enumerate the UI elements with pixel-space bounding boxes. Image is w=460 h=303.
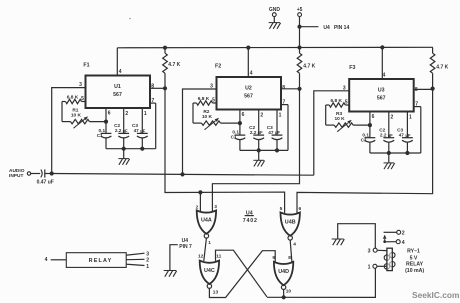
node output junction #1 bbox=[163, 86, 167, 90]
wire U4D output down bbox=[283, 290, 285, 298]
NOR gate U4C bbox=[200, 261, 219, 284]
svg-text:4: 4 bbox=[293, 242, 296, 248]
svg-text:µF: µF bbox=[123, 129, 128, 134]
wire 6.8K to pot bbox=[61, 102, 63, 122]
svg-text:3: 3 bbox=[79, 82, 82, 88]
wire pin2 to C2 bbox=[258, 110, 260, 136]
ground rail (U3) bbox=[370, 152, 421, 154]
IC U1 567 tone decoder bbox=[86, 76, 151, 109]
node pin6 junction bbox=[238, 121, 242, 125]
wire U2 pin4 to bus bbox=[247, 48, 249, 77]
wire pin6 to C1 bbox=[105, 108, 107, 133]
wire U1 output to gates bbox=[165, 88, 285, 213]
svg-text:4: 4 bbox=[250, 71, 253, 77]
svg-text:3: 3 bbox=[368, 248, 371, 254]
svg-text:F2: F2 bbox=[215, 64, 221, 70]
wire U3 pin8 stub bbox=[414, 88, 433, 90]
svg-text:RY–1: RY–1 bbox=[407, 248, 420, 254]
capacitor C1 0.1 (U2) bbox=[235, 134, 246, 136]
svg-text:4.7 K: 4.7 K bbox=[168, 62, 180, 68]
svg-text:5: 5 bbox=[280, 206, 283, 212]
NOR gate U4D bbox=[274, 262, 293, 285]
svg-text:2: 2 bbox=[391, 114, 394, 120]
ground (U3) bbox=[388, 153, 390, 163]
svg-text:1: 1 bbox=[279, 113, 282, 119]
resistor 6.8K (U1 pin5) bbox=[62, 101, 66, 103]
stray mark bbox=[129, 18, 131, 20]
wire U2 pin8 stub bbox=[281, 88, 300, 90]
wire U4A output to U4C pin12 bbox=[204, 238, 207, 261]
svg-text:12: 12 bbox=[198, 254, 204, 260]
svg-text:2: 2 bbox=[196, 204, 199, 210]
svg-text:INPUT: INPUT bbox=[9, 173, 23, 179]
terminal 4 contact bbox=[396, 240, 400, 244]
svg-text:R1: R1 bbox=[72, 107, 78, 113]
svg-text:47: 47 bbox=[134, 128, 140, 133]
ground rail (U1) bbox=[106, 148, 156, 150]
svg-text:1: 1 bbox=[146, 264, 149, 270]
svg-text:U3: U3 bbox=[378, 88, 385, 94]
svg-text:567: 567 bbox=[377, 96, 386, 102]
svg-text:4.7 K: 4.7 K bbox=[436, 65, 448, 71]
wire U4C output to U4D pin9 (cross-couple) bbox=[209, 251, 275, 298]
resistor 6.8K (U3 pin5) bbox=[326, 104, 330, 106]
svg-text:C1: C1 bbox=[231, 135, 237, 140]
svg-text:47: 47 bbox=[399, 132, 405, 137]
node pin6 junction bbox=[104, 120, 108, 124]
svg-text:GND: GND bbox=[269, 7, 281, 13]
svg-text:47: 47 bbox=[268, 130, 274, 135]
svg-text:RELAY: RELAY bbox=[406, 262, 424, 268]
potentiometer R1 10K bbox=[62, 121, 71, 123]
capacitor 0.47uF coupling bbox=[31, 173, 41, 175]
svg-text:µF: µF bbox=[140, 129, 145, 134]
capacitor C3 47uF (U3) bbox=[402, 137, 413, 139]
svg-text:SeekIC.com: SeekIC.com bbox=[412, 290, 459, 300]
wire U4B output to U4D pin8 bbox=[290, 240, 292, 262]
svg-text:C1: C1 bbox=[97, 133, 103, 138]
svg-text:11: 11 bbox=[216, 254, 221, 260]
capacitor C2 2.2uF (U2) bbox=[253, 134, 264, 136]
svg-text:10: 10 bbox=[286, 288, 292, 294]
ground for relay contact 3 bbox=[332, 238, 344, 240]
ground rail (U2) bbox=[240, 149, 288, 151]
svg-text:2: 2 bbox=[125, 111, 128, 117]
svg-text:1: 1 bbox=[144, 111, 147, 117]
svg-text:4: 4 bbox=[402, 240, 405, 246]
NOR gate U4B bbox=[281, 212, 300, 235]
svg-text:6: 6 bbox=[108, 111, 111, 117]
wire U2 output to U4A pin3 bbox=[212, 89, 299, 211]
wire pin1 to C3 bbox=[276, 110, 278, 136]
wire pin7 to rail bbox=[150, 102, 156, 104]
svg-text:1: 1 bbox=[368, 265, 371, 271]
svg-text:3: 3 bbox=[146, 251, 149, 257]
terminal 3 bbox=[373, 248, 377, 252]
svg-text:2.2: 2.2 bbox=[380, 132, 387, 137]
wire U4 pin7 to ground bbox=[170, 245, 178, 271]
svg-text:U1: U1 bbox=[114, 84, 121, 90]
resistor 6.8K (U2 pin5) bbox=[193, 102, 197, 104]
node wiper pivot bbox=[383, 240, 386, 243]
NOR gate U4A bbox=[197, 210, 216, 233]
svg-text:3: 3 bbox=[214, 204, 217, 210]
wire output line to relay coil bbox=[267, 268, 376, 297]
resistor 4.7K pull-up #3 bbox=[432, 48, 434, 54]
svg-text:567: 567 bbox=[113, 92, 122, 98]
wire audio to U1 pin3 bbox=[52, 88, 86, 174]
wire to U4 pin 14 label bbox=[300, 26, 319, 28]
svg-text:4: 4 bbox=[45, 257, 48, 263]
node U4A pin2 tap bbox=[198, 190, 202, 194]
svg-text:2: 2 bbox=[402, 230, 405, 236]
resistor 4.7K pull-up #2 bbox=[299, 48, 301, 54]
svg-text:6.8 K: 6.8 K bbox=[330, 98, 342, 104]
ground U4 pin7 bbox=[164, 270, 176, 272]
node output junction #2 bbox=[297, 87, 301, 91]
wires caps to ground rail bbox=[369, 142, 371, 153]
svg-text:C1: C1 bbox=[361, 137, 367, 142]
IC U2 567 tone decoder bbox=[217, 77, 282, 110]
wire +5 down to bus bbox=[299, 17, 301, 48]
svg-text:2: 2 bbox=[260, 112, 263, 118]
wire 4 to relay box bbox=[51, 259, 67, 261]
potentiometer R3 10K bbox=[326, 124, 335, 126]
node output junction #3 bbox=[431, 87, 435, 91]
svg-text:2: 2 bbox=[146, 257, 149, 263]
wire 6.8K to pot bbox=[192, 103, 194, 123]
IC U3 567 tone decoder bbox=[349, 79, 414, 112]
capacitor C1 0.1 (U1) bbox=[101, 132, 112, 134]
svg-text:(10 mA): (10 mA) bbox=[405, 268, 424, 274]
wire U3 output to U4B pin6 bbox=[297, 89, 433, 214]
svg-text:R3: R3 bbox=[336, 111, 342, 117]
ground (U2) bbox=[258, 150, 260, 160]
svg-text:PIN 7: PIN 7 bbox=[179, 244, 192, 250]
capacitor C3 47uF (U1) bbox=[137, 132, 148, 134]
wire pin6 to C1 bbox=[239, 110, 241, 136]
relay box bbox=[66, 253, 126, 268]
capacitor C2 2.2uF (U3) bbox=[383, 137, 394, 139]
node U4D output junction bbox=[282, 295, 286, 299]
ground (U1) bbox=[123, 149, 125, 159]
svg-text:U4A: U4A bbox=[201, 218, 212, 224]
svg-text:µF: µF bbox=[275, 130, 280, 135]
wire U1 pin4 to bus bbox=[116, 48, 118, 76]
svg-text:10 K: 10 K bbox=[335, 116, 346, 122]
svg-text:1: 1 bbox=[208, 240, 211, 246]
wire terminal 1 to coil bbox=[377, 265, 387, 267]
wire terminal 3 to coil bbox=[377, 249, 387, 251]
wires caps to ground rail bbox=[239, 140, 241, 151]
wire U3 pin4 to bus bbox=[381, 48, 383, 80]
svg-text:R2: R2 bbox=[203, 109, 209, 115]
svg-text:8: 8 bbox=[282, 85, 285, 91]
svg-text:6: 6 bbox=[299, 206, 302, 212]
wire pin6 to C1 bbox=[369, 112, 371, 138]
audio bus wire bbox=[52, 174, 314, 176]
bus junction dots bbox=[163, 46, 167, 50]
node U4 pin 14 tap bbox=[297, 25, 301, 29]
svg-text:6.8 K: 6.8 K bbox=[67, 94, 79, 100]
wire 6.8K to pot bbox=[325, 105, 327, 125]
capacitor C2 2.2uF (U1) bbox=[118, 132, 129, 134]
svg-text:U2: U2 bbox=[245, 86, 252, 92]
wire to U4A pin2 bbox=[199, 192, 201, 211]
svg-text:6: 6 bbox=[372, 114, 375, 120]
svg-text:µF: µF bbox=[258, 130, 263, 135]
svg-text:4.7 K: 4.7 K bbox=[303, 64, 315, 70]
wire pin7 to rail bbox=[414, 106, 421, 108]
node pin6 junction bbox=[368, 123, 372, 127]
wire U4C pin11 from U4D output (cross-couple) bbox=[216, 250, 267, 297]
relay coil RY-1 bbox=[384, 255, 389, 260]
wire ground to terminal 3 bbox=[338, 224, 376, 249]
svg-text:U4C: U4C bbox=[204, 268, 215, 274]
top power bus wire bbox=[117, 46, 433, 49]
node audio-U1 bbox=[50, 171, 54, 175]
svg-text:U4 PIN 14: U4 PIN 14 bbox=[323, 25, 349, 31]
svg-text:F3: F3 bbox=[349, 65, 355, 71]
wire pin7 to rail bbox=[281, 104, 288, 106]
svg-text:2.2: 2.2 bbox=[250, 130, 257, 135]
svg-text:10 K: 10 K bbox=[71, 113, 82, 119]
svg-text:5 V: 5 V bbox=[410, 255, 418, 261]
node audio-U2 bbox=[180, 172, 184, 176]
svg-text:U4B: U4B bbox=[285, 220, 296, 226]
svg-text:+5: +5 bbox=[297, 7, 303, 13]
svg-text:F1: F1 bbox=[83, 62, 89, 68]
wire pin1 to C3 bbox=[406, 112, 408, 138]
svg-text:µF: µF bbox=[388, 133, 393, 138]
svg-text:10 K: 10 K bbox=[202, 114, 213, 120]
svg-text:AUDIO: AUDIO bbox=[9, 168, 25, 174]
resistor 4.7K pull-up #1 bbox=[164, 48, 166, 54]
svg-text:7402: 7402 bbox=[243, 218, 258, 224]
wire audio to U2 pin3 bbox=[183, 89, 217, 174]
terminal 1 bbox=[373, 264, 377, 268]
capacitor C3 47uF (U2) bbox=[272, 134, 283, 136]
potentiometer R2 10K bbox=[193, 122, 202, 124]
svg-text:1: 1 bbox=[409, 115, 412, 121]
svg-text:4: 4 bbox=[383, 73, 386, 79]
svg-text:0.47 uF: 0.47 uF bbox=[37, 180, 54, 186]
svg-text:U4D: U4D bbox=[278, 269, 289, 275]
svg-text:6.8 K: 6.8 K bbox=[198, 96, 210, 102]
relay box wires 3,2,1 bbox=[126, 253, 144, 255]
svg-text:RELAY: RELAY bbox=[89, 258, 113, 264]
svg-text:13: 13 bbox=[213, 289, 219, 295]
terminal 2 contact bbox=[397, 230, 401, 234]
svg-text:2.2: 2.2 bbox=[115, 128, 122, 133]
svg-text:6: 6 bbox=[242, 112, 245, 118]
relay wiper arrow bbox=[384, 239, 386, 242]
svg-text:µF: µF bbox=[405, 133, 410, 138]
wire pin2 to C2 bbox=[123, 108, 125, 133]
wire U1 pin8 stub bbox=[150, 87, 165, 89]
svg-text:4: 4 bbox=[119, 69, 122, 75]
wire audio to U3 pin3 bbox=[314, 91, 349, 175]
wire pin1 to C3 bbox=[141, 108, 143, 133]
capacitor C1 0.1 (U3) bbox=[365, 137, 376, 139]
svg-text:567: 567 bbox=[244, 94, 253, 100]
wires caps to ground rail bbox=[105, 138, 107, 149]
wire pin2 to C2 bbox=[388, 112, 390, 138]
